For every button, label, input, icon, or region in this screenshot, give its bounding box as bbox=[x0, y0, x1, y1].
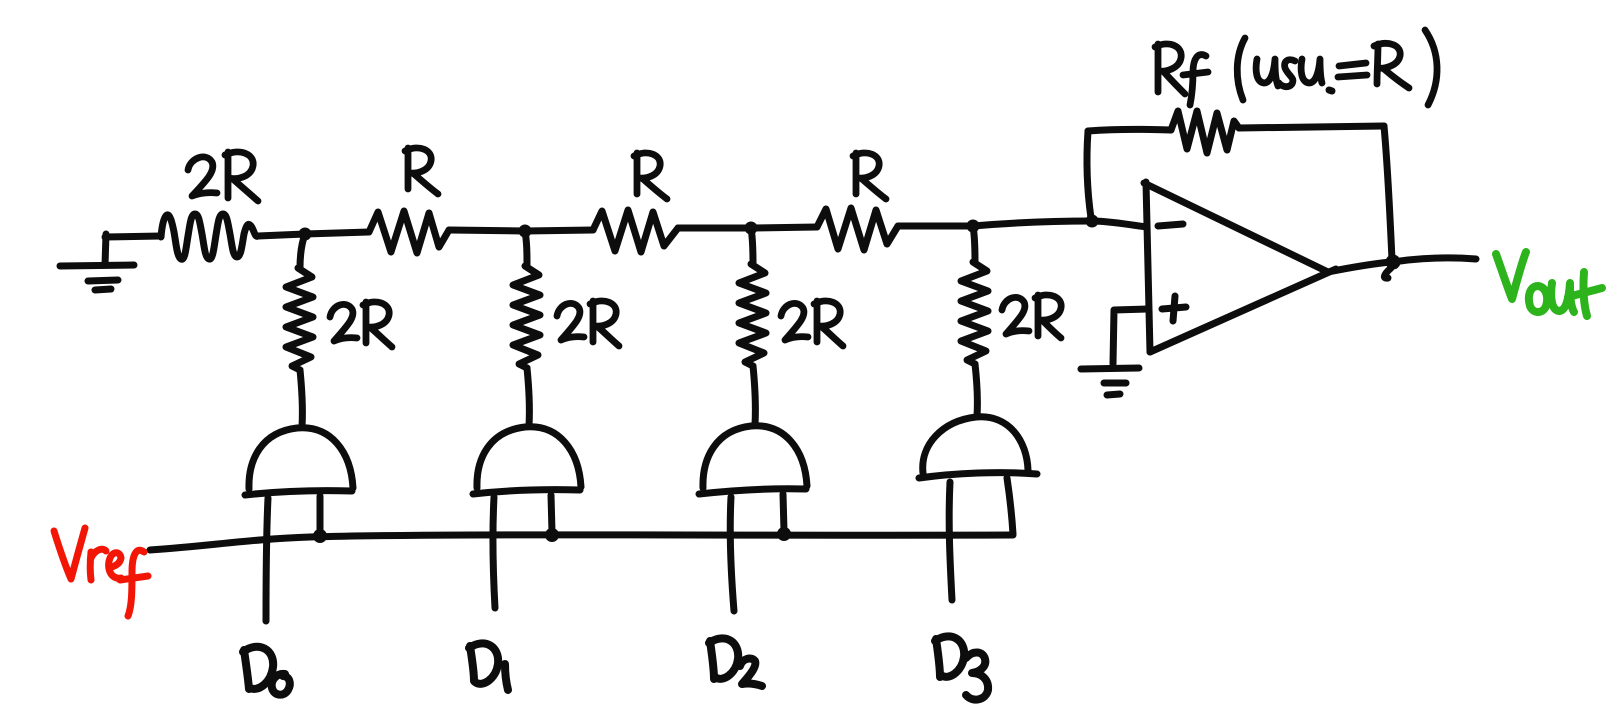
resistor 2R column 2 vertical bbox=[513, 231, 540, 426]
wire to op-amp inverting input bbox=[973, 221, 1147, 227]
node F output junction bbox=[1386, 255, 1401, 270]
switch S2 bbox=[699, 426, 807, 611]
resistor 2R column 4 vertical bbox=[961, 226, 988, 416]
resistor R1 bbox=[369, 211, 449, 253]
node S1-bus junction bbox=[545, 528, 559, 542]
wire bbox=[258, 234, 305, 236]
label D0 bbox=[243, 647, 290, 695]
label 2R (column 2) bbox=[557, 301, 619, 346]
node S0-bus junction bbox=[313, 529, 327, 543]
label D2 bbox=[709, 638, 762, 686]
wire feedback top left bbox=[1088, 129, 1171, 131]
switch S0 bbox=[245, 428, 353, 621]
resistor Rf bbox=[1171, 111, 1239, 153]
label D1 bbox=[469, 643, 508, 690]
node C bbox=[745, 222, 758, 235]
label D3 bbox=[935, 636, 988, 699]
label Vref bbox=[54, 528, 148, 616]
node B bbox=[519, 225, 532, 238]
label 2R (column 3) bbox=[781, 301, 843, 346]
op-amp plus pin bbox=[1162, 296, 1186, 321]
wire feedback right vertical bbox=[1384, 126, 1392, 260]
resistor R2 bbox=[593, 210, 678, 252]
wire bbox=[898, 223, 973, 230]
wire feedback top right bbox=[1239, 126, 1384, 128]
op-amp minus pin bbox=[1158, 224, 1183, 226]
wire bbox=[449, 230, 525, 231]
switch S1 bbox=[473, 427, 581, 608]
Vref bus wire bbox=[150, 535, 1013, 550]
wire feedback left vertical bbox=[1087, 131, 1091, 218]
label Rf (usu. = R) bbox=[1155, 30, 1437, 105]
node A bbox=[299, 228, 312, 241]
op-amp U1 bbox=[1144, 182, 1336, 352]
node E feedback junction bbox=[1086, 215, 1099, 228]
label Vout bbox=[1496, 252, 1602, 316]
node S2-bus junction bbox=[777, 527, 791, 541]
label 2R (column 4) bbox=[1002, 295, 1061, 338]
resistor 2R column 3 vertical bbox=[739, 228, 766, 425]
label R (R2) bbox=[634, 153, 667, 199]
labels group bbox=[188, 30, 1437, 700]
wire op-amp noninverting input to ground bbox=[1113, 309, 1147, 364]
resistor 2R left bbox=[161, 214, 258, 259]
ground at op-amp bbox=[1081, 368, 1139, 395]
wire output to Vout bbox=[1393, 258, 1476, 262]
resistor 2R column 1 vertical bbox=[286, 234, 313, 427]
switch S3 bbox=[919, 417, 1037, 600]
label 2R (left resistor) bbox=[188, 152, 258, 201]
wire bbox=[105, 236, 161, 237]
wire op-amp output bbox=[1328, 262, 1391, 272]
wire bbox=[751, 227, 817, 228]
label R (R1) bbox=[405, 148, 438, 194]
label R (R3) bbox=[853, 153, 886, 199]
label 2R (column 1) bbox=[330, 302, 392, 347]
wire bbox=[678, 225, 751, 232]
node D bbox=[967, 220, 980, 233]
wire bbox=[525, 230, 593, 231]
resistor R3 bbox=[817, 208, 898, 250]
ground bbox=[60, 234, 134, 290]
wire bbox=[305, 232, 369, 234]
